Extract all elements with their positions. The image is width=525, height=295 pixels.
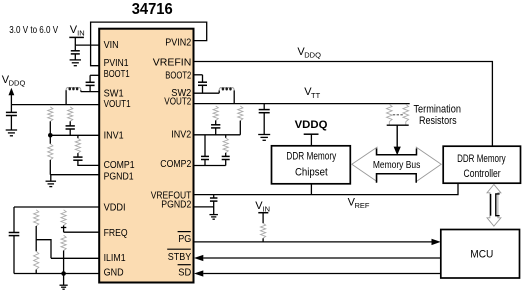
pin label VIN (104, 40, 119, 51)
svg-text:VOUT1: VOUT1 (104, 99, 131, 110)
resistor R11 compensation ch2 (223, 135, 228, 153)
svg-text:3.0 V to 6.0 V: 3.0 V to 6.0 V (9, 25, 58, 36)
svg-text:BOOT1: BOOT1 (104, 69, 130, 80)
pin label INV2 (171, 130, 191, 141)
wire ILIM1 pin (51, 257, 99, 259)
pin label COMP2 (160, 159, 191, 170)
svg-text:PGND2: PGND2 (161, 200, 191, 211)
resistor RT2 termination (403, 104, 409, 121)
svg-text:INV1: INV1 (104, 131, 124, 142)
pin label VOUT1 (104, 99, 131, 110)
pin label PVIN1 (104, 58, 129, 69)
wire COMP1 pin (77, 164, 99, 166)
svg-text:VDDI: VDDI (104, 203, 126, 214)
pin label PG (178, 234, 191, 245)
svg-text:SW1: SW1 (104, 89, 124, 100)
svg-text:VIN: VIN (104, 40, 119, 51)
pin label BOOT2 (165, 71, 191, 82)
wire SW2 pin (194, 92, 220, 94)
pin label INV1 (104, 131, 124, 142)
wire STBY from MCU (194, 255, 441, 261)
pin label STBY (168, 252, 192, 263)
resistor R2 feedforward ch1 (68, 107, 73, 126)
node junction dot GND (61, 271, 66, 276)
termination ellipsis dashes (393, 114, 403, 116)
ground at PGND1 (46, 175, 57, 187)
pin label PGND2 (161, 200, 191, 211)
resistor R7 FREQ upper (61, 210, 66, 232)
svg-text:DDR Memory: DDR Memory (457, 153, 506, 165)
svg-text:STBY: STBY (168, 252, 192, 263)
resistor R8 FREQ lower (61, 235, 66, 273)
inductor L1 (66, 87, 81, 105)
pin label FREQ (104, 228, 128, 239)
svg-text:MCU: MCU (470, 249, 493, 261)
overline PG pin (178, 231, 191, 233)
chip title 34716 (132, 1, 173, 18)
svg-text:COMP1: COMP1 (104, 160, 135, 171)
wire VDDI pin (14, 206, 99, 208)
wire PGND2 pin (194, 206, 214, 208)
memory bus double arrow outline (352, 147, 441, 181)
capacitor C_FF2 (211, 125, 220, 135)
resistor R1 upper divider ch1 (48, 107, 53, 135)
ground below C_VIN (70, 60, 81, 66)
node VREF label (348, 197, 370, 211)
resistor R12 PG pullup (261, 223, 266, 242)
svg-text:ILIM1: ILIM1 (104, 253, 126, 264)
pin label PGND1 (104, 172, 134, 183)
pin label PVIN2 (165, 37, 191, 48)
svg-text:INV2: INV2 (171, 130, 191, 141)
svg-text:PVIN1: PVIN1 (104, 58, 129, 69)
wire GND pin (14, 273, 99, 275)
svg-text:34716: 34716 (132, 1, 173, 18)
pin label BOOT1 (104, 69, 130, 80)
capacitor C_COMP1 (73, 153, 82, 165)
wire SD from MCU (194, 270, 441, 276)
ground at GND pin (60, 274, 68, 290)
wire INV1 pin (50, 134, 99, 136)
VDDQ up arrow (9, 88, 15, 105)
pin label SW1 (104, 89, 124, 100)
wire BOOT1 pin (90, 75, 99, 82)
wire VDDQ rail VOUT1 (11, 104, 99, 106)
wire ILIM1 tap jog (36, 240, 51, 259)
resistor R3 lower divider ch1 (48, 135, 53, 174)
pin label GND (104, 267, 124, 278)
controller MCU arrow left mark (490, 194, 492, 216)
capacitor C_VREF (210, 195, 218, 215)
block MCU (441, 230, 520, 279)
wire PVIN1 to PVIN2 loop over chip (91, 22, 207, 66)
wire PG to MCU (194, 239, 441, 245)
wire BOOT2 pin (194, 75, 203, 82)
ground below C_OUT1 (6, 130, 17, 136)
IC U1 regulator 34716 body (99, 29, 193, 283)
controller MCU double arrow outline (487, 184, 501, 226)
capacitor C_BOOT2 (198, 82, 207, 93)
pin label SW2 (171, 88, 191, 99)
capacitor C_P2 compensation (201, 135, 209, 166)
label Memory Bus (373, 160, 421, 171)
termination bottom bracket (387, 122, 409, 126)
node VDDQ label left (2, 74, 26, 88)
capacitor C_COMP2 (222, 153, 230, 166)
svg-text:PVIN2: PVIN2 (165, 37, 191, 48)
memory bus bottom bracket (377, 174, 417, 183)
svg-text:Controller: Controller (464, 168, 501, 180)
svg-text:VOUT2: VOUT2 (164, 97, 191, 108)
capacitor C_VDDI (9, 207, 20, 274)
overline SD pin (178, 264, 191, 266)
inductor L2 (219, 87, 234, 103)
svg-text:Resistors: Resistors (419, 115, 457, 127)
node VIN pullup label (255, 200, 270, 214)
svg-text:Chipset: Chipset (295, 166, 328, 178)
capacitor C_FF1 feedforward (66, 126, 75, 135)
wire COMP2 pin (194, 165, 226, 167)
svg-text:DDR Memory: DDR Memory (286, 150, 336, 162)
block DDR Memory Controller (443, 146, 520, 183)
svg-text:Termination: Termination (413, 104, 461, 116)
svg-text:VREFIN: VREFIN (153, 58, 192, 69)
wire termination to memory bus arrow (394, 125, 401, 155)
resistor RT1 termination (387, 104, 393, 121)
pin label VREFIN (153, 58, 192, 69)
node VDDQ terminal label (295, 119, 328, 131)
overline STBY pin (167, 248, 191, 250)
resistor R9 feedforward ch2 (213, 106, 218, 125)
svg-text:COMP2: COMP2 (160, 159, 191, 170)
label 3.0 V to 6.0 V (9, 25, 58, 36)
wire PGND1 pin (50, 174, 99, 176)
svg-text:SD: SD (178, 267, 191, 278)
capacitor C_OUT1 bulk (6, 105, 17, 130)
controller MCU arrow right bracket (496, 194, 500, 216)
pin label COMP1 (104, 160, 135, 171)
wire FREQ pin (64, 231, 100, 233)
ground below C_OUT2 (258, 135, 270, 141)
VDDQ terminal bar (304, 134, 319, 146)
resistor R4 compensation ch1 (75, 135, 80, 153)
node VTT label (304, 86, 320, 100)
wire VREFOUT to VREF (194, 183, 459, 194)
wire SW1 pin (81, 91, 99, 93)
node VIN supply label (70, 24, 85, 38)
label Termination Resistors (413, 104, 461, 127)
resistor R5 ILIM divider upper (34, 210, 39, 252)
pin label SD (178, 267, 191, 278)
node junction dot INV1 divider (48, 133, 53, 138)
node VDDQ label top (297, 46, 321, 60)
capacitor C_OUT2 VTT (259, 104, 270, 135)
svg-text:BOOT2: BOOT2 (165, 71, 191, 82)
VIN supply terminal bar (69, 37, 84, 45)
ground below C_VREF (209, 215, 218, 220)
wire chipset VREF stub (310, 184, 312, 195)
capacitor C_BOOT1 (86, 82, 95, 91)
svg-text:FREQ: FREQ (104, 228, 128, 239)
svg-text:PGND1: PGND1 (104, 172, 134, 183)
wire VTT rail VOUT2 (194, 103, 410, 105)
resistor R6 ILIM divider lower (34, 251, 39, 273)
block DDR Memory Chipset (272, 146, 351, 184)
pin label VOUT2 (164, 97, 191, 108)
wire INV2 pin (194, 134, 241, 136)
svg-text:Memory Bus: Memory Bus (373, 160, 421, 171)
wire VREFIN to VDDQ controller (194, 62, 493, 147)
resistor R10 upper divider ch2 (238, 106, 243, 135)
svg-text:PG: PG (178, 234, 191, 245)
VIN pullup terminal bar (258, 213, 268, 224)
pin label ILIM1 (104, 253, 126, 264)
wire VIN pin (75, 44, 99, 46)
svg-text:GND: GND (104, 267, 124, 278)
svg-text:VDDQ: VDDQ (295, 119, 328, 131)
pin label VREFOUT (151, 191, 192, 202)
memory bus top bracket (377, 149, 417, 155)
capacitor C_VIN input bypass (71, 45, 80, 60)
pin label VDDI (104, 203, 126, 214)
